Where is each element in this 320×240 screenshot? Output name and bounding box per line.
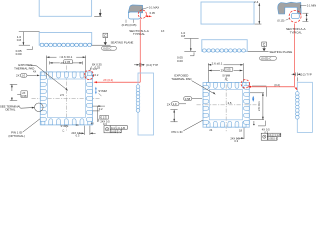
corner pad dims above circle <box>93 67 99 77</box>
seating plane datum C <box>92 33 111 45</box>
svg-text:0.1 MAX: 0.1 MAX <box>149 5 160 9</box>
svg-text:2.6 ±0.1: 2.6 ±0.1 <box>257 101 261 111</box>
svg-text:0.1 MIN: 0.1 MIN <box>307 4 316 8</box>
svg-text:4X: 4X <box>33 70 36 74</box>
svg-text:1.0: 1.0 <box>173 102 177 106</box>
svg-text:2.05: 2.05 <box>65 60 71 64</box>
terminal detail view (left) <box>138 73 154 135</box>
svg-text:0.3: 0.3 <box>76 134 80 138</box>
symm marker right <box>95 87 97 95</box>
top view body outline <box>39 0 91 16</box>
svg-text:2.5: 2.5 <box>228 101 232 105</box>
svg-text:SEATING PLANE: SEATING PLANE <box>111 41 134 45</box>
dim 2X (2.05) <box>50 60 83 65</box>
svg-text:0.8: 0.8 <box>181 34 186 38</box>
side view body <box>39 33 91 46</box>
svg-text:0.00: 0.00 <box>16 52 22 56</box>
detail dim <box>134 63 145 67</box>
callout boxes left (right drawing) <box>184 97 192 101</box>
svg-text:TYPICAL: TYPICAL <box>290 30 302 34</box>
svg-text:(0.05) C: (0.05) C <box>261 56 271 60</box>
EXPOSED THERMAL PAD (right) <box>171 74 191 81</box>
top view size dimension (cropped) <box>94 9 101 16</box>
svg-text:□2.6 ±0.1: □2.6 ±0.1 <box>60 55 73 59</box>
svg-text:2X: 2X <box>16 74 20 78</box>
svg-text:0.1Ⓢ C A B: 0.1Ⓢ C A B <box>111 126 125 130</box>
svg-text:0.1Ⓢ: 0.1Ⓢ <box>101 115 108 119</box>
svg-text:PIN 1 ID: PIN 1 ID <box>172 130 183 134</box>
svg-text:0.05: 0.05 <box>150 11 156 15</box>
PIN 1 ID label <box>8 131 25 138</box>
svg-text:0.3: 0.3 <box>234 139 238 142</box>
svg-text:1.0: 1.0 <box>22 73 26 77</box>
EXPOSED THERMAL PAD label + leader <box>14 63 34 70</box>
svg-text:THERMAL PAD: THERMAL PAD <box>171 77 191 81</box>
svg-text:(0.05): (0.05) <box>129 23 136 27</box>
SECTION A-A (left) <box>128 5 142 19</box>
svg-text:(OPTIONAL): (OPTIONAL) <box>8 134 25 138</box>
svg-text:(0.2) TYP: (0.2) TYP <box>146 63 158 67</box>
side view height dim 1.0/0.8 <box>19 32 40 46</box>
svg-text:2X: 2X <box>221 69 225 73</box>
svg-text:0.2: 0.2 <box>99 107 103 111</box>
top view <box>201 2 254 24</box>
small L dim <box>254 121 265 126</box>
svg-text:0.58: 0.58 <box>185 97 191 101</box>
svg-text:0.05Ⓢ C: 0.05Ⓢ C <box>268 137 278 141</box>
svg-text:2.05: 2.05 <box>225 68 231 72</box>
SECTION A-A (right) <box>278 2 302 14</box>
flatness callout <box>102 46 117 50</box>
feature control frame (right) <box>261 133 281 140</box>
svg-text:18: 18 <box>239 128 242 132</box>
svg-text:0.8: 0.8 <box>17 38 22 42</box>
terminal detail view (right) <box>297 82 312 132</box>
red detail circle (right) <box>241 80 249 88</box>
svg-text:0.05 C: 0.05 C <box>103 46 111 50</box>
svg-text:SEATING PLANE: SEATING PLANE <box>269 50 292 54</box>
svg-text:DETAIL: DETAIL <box>5 108 15 112</box>
svg-text:SYMM: SYMM <box>61 124 69 128</box>
svg-text:0.00: 0.00 <box>177 59 183 63</box>
terminals top row <box>40 72 92 125</box>
svg-text:THERMAL PAD: THERMAL PAD <box>14 66 34 70</box>
dims above bottom view (right) <box>208 63 243 88</box>
svg-text:0.3: 0.3 <box>103 122 107 126</box>
side view terminals (ovals) <box>40 43 91 46</box>
pad size note 8X <box>92 63 102 70</box>
left vertical dim with 2X box <box>10 84 28 100</box>
svg-text:2X: 2X <box>60 61 64 65</box>
svg-text:(0.05): (0.05) <box>122 23 129 27</box>
side view (right) <box>202 40 247 52</box>
svg-text:0.2: 0.2 <box>95 73 99 77</box>
svg-text:(0.2): (0.2) <box>274 83 280 87</box>
svg-text:0.1Ⓢ C A B: 0.1Ⓢ C A B <box>268 133 281 137</box>
red leader to terminal detail <box>94 19 140 82</box>
feature control frame (left) <box>104 126 127 133</box>
svg-text:2X (0.2): 2X (0.2) <box>103 78 113 82</box>
dim 2.6 +-0.1 over bottom view <box>47 56 86 79</box>
svg-text:SYMM: SYMM <box>98 89 107 93</box>
svg-text:0.3: 0.3 <box>93 67 97 71</box>
right margin small dims <box>93 106 105 122</box>
right margin dims (right drawing) <box>250 93 264 120</box>
svg-text:2.5: 2.5 <box>60 93 64 97</box>
red detail circle at corner (left) <box>84 70 93 79</box>
outer body square <box>40 72 92 125</box>
inner (thermal pad) square <box>47 79 85 117</box>
svg-text:TYPICAL: TYPICAL <box>133 32 145 36</box>
svg-text:1X: 1X <box>161 29 165 33</box>
SEE TERMINAL DETAIL + magnifier <box>0 104 21 111</box>
svg-text:0.58: 0.58 <box>21 94 27 98</box>
svg-text:4X: 4X <box>91 121 94 125</box>
svg-text:2.6 ±0.1: 2.6 ±0.1 <box>212 62 223 66</box>
bottom margin dims (left) <box>79 126 90 135</box>
bottom margin dims (right) <box>237 128 244 139</box>
svg-text:2X: 2X <box>167 103 171 107</box>
seating plane (right) <box>248 42 269 51</box>
centerlines <box>32 66 100 131</box>
svg-text:2.4: 2.4 <box>254 0 259 4</box>
standoff dim 0.05/0.00 <box>27 46 33 49</box>
svg-text:(0.2) TYP: (0.2) TYP <box>300 73 312 77</box>
svg-text:0.05Ⓢ C: 0.05Ⓢ C <box>111 129 122 133</box>
svg-text:(0.15): (0.15) <box>277 18 284 22</box>
small callout box right-bottom <box>100 115 108 119</box>
symm marker <box>252 96 254 102</box>
